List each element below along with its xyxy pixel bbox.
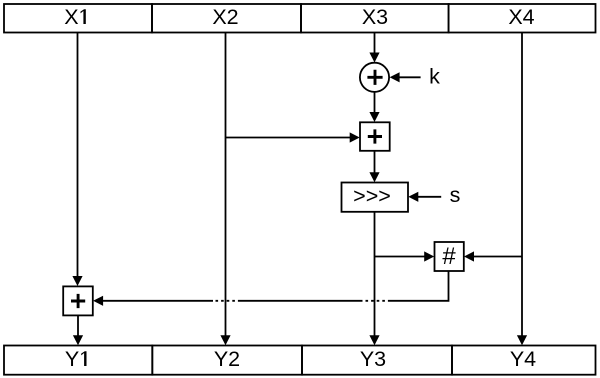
arrowhead into Y2: [220, 335, 230, 345]
arrowhead into U2 top: [369, 112, 379, 122]
output word box Y2: [152, 346, 302, 375]
arrowhead X4 into U4: [464, 251, 474, 261]
svg-text:X2: X2: [212, 5, 238, 29]
wire U4 output to adder U5: [102, 300, 213, 302]
svg-text:#: #: [442, 243, 456, 270]
input word box X1: [4, 4, 152, 33]
input word box X4: [449, 4, 596, 33]
wire k input: [399, 76, 421, 78]
plus sign of U1: [367, 70, 382, 85]
rotate box U3: [342, 183, 409, 212]
arrowhead into U1: [369, 53, 379, 63]
wire X3 branch to hash U4: [375, 256, 426, 258]
svg-text:k: k: [429, 65, 440, 89]
arrowhead X3 into U4: [424, 251, 434, 261]
plus sign of U5: [71, 294, 85, 308]
adder circle U1: [360, 63, 389, 92]
wire U2 to shifter U3: [374, 151, 376, 174]
svg-text:Y2: Y2: [214, 347, 240, 371]
arrowhead into U3: [369, 172, 379, 182]
xor box U2: [360, 122, 390, 151]
arrowhead into Y4: [517, 335, 527, 345]
svg-text:>>>: >>>: [353, 184, 391, 208]
wire X2 down: [225, 33, 227, 337]
xor box U5: [63, 286, 93, 315]
arrowhead into Y1: [73, 335, 83, 345]
arrowhead s into U3: [408, 192, 418, 202]
wire U4 output solid middle: [241, 300, 361, 302]
wire U1 to U2: [374, 92, 376, 114]
input word box X2: [152, 4, 301, 33]
arrowhead into Y3: [369, 335, 379, 345]
arrowhead X1 into U5: [72, 276, 82, 286]
arrowhead U4 into U5: [93, 296, 103, 306]
svg-text:X: X: [64, 5, 78, 29]
arrowhead k into U1: [390, 72, 400, 82]
svg-text:Y4: Y4: [510, 347, 536, 371]
wire U5 to Y1: [77, 315, 79, 336]
svg-text:X3: X3: [362, 5, 388, 29]
wire X4 down: [521, 33, 523, 337]
output word box Y1: [4, 346, 152, 375]
hash box U4: [435, 242, 464, 271]
wire X1 down: [77, 33, 79, 278]
wire X4 branch to hash U4: [474, 256, 523, 258]
wire U4 output dotted crossing X2: [213, 300, 241, 302]
wire X2 branch to adder U2: [226, 137, 352, 139]
input word box X3: [301, 4, 449, 33]
wire X3 down to adder U1: [374, 33, 376, 55]
wire U4 output dotted crossing X3: [360, 300, 391, 302]
svg-text:Y3: Y3: [360, 347, 386, 371]
svg-text:s: s: [450, 183, 461, 207]
wire U4 output down: [391, 271, 449, 301]
output word box Y4: [452, 346, 596, 375]
output word box Y3: [302, 346, 452, 375]
svg-text:Y: Y: [65, 347, 79, 371]
arrowhead X2 into U2: [350, 132, 360, 142]
svg-text:X4: X4: [508, 5, 534, 29]
wire s input: [418, 196, 442, 198]
wire U3 down to Y3: [374, 212, 376, 337]
plus sign of U2: [368, 129, 382, 143]
